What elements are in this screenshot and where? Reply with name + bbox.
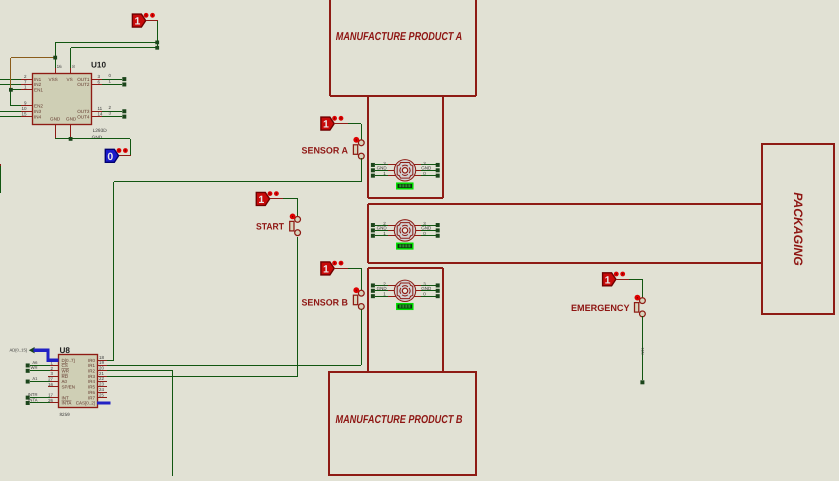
svg-text:VS: VS	[67, 77, 73, 82]
svg-text:WR: WR	[62, 369, 70, 374]
terminal INTR on U8	[26, 392, 50, 400]
svg-text:GND: GND	[421, 226, 432, 231]
wire EMERGENCY top	[642, 279, 644, 298]
IC U8 (8259A interrupt controller)	[48, 346, 107, 417]
logic state 1 feeding VSS/VS	[132, 13, 158, 28]
svg-text:IR4: IR4	[88, 379, 96, 384]
svg-text:INT: INT	[62, 395, 70, 400]
svg-text:0: 0	[107, 151, 113, 163]
wire OUT1 to terminal	[102, 73, 126, 81]
svg-text:24: 24	[99, 387, 104, 392]
clipped wire at left edge	[0, 164, 2, 193]
svg-text:11: 11	[98, 106, 103, 111]
svg-text:CAS[0..2]: CAS[0..2]	[76, 401, 95, 406]
svg-text:GND: GND	[377, 166, 388, 171]
svg-text:GND: GND	[50, 116, 61, 121]
svg-text:1: 1	[323, 119, 329, 131]
svg-text:MANUFACTURE PRODUCT B: MANUFACTURE PRODUCT B	[336, 414, 463, 426]
svg-text:EN1: EN1	[34, 88, 43, 93]
junction VSS	[155, 41, 159, 45]
svg-text:VSS: VSS	[49, 77, 58, 82]
svg-text:GND: GND	[377, 226, 388, 231]
bus CAS[0..2] out of U8	[97, 401, 110, 404]
logic state 1 for SENSOR B	[321, 261, 361, 276]
svg-text:U8: U8	[60, 346, 71, 355]
logic state 1 for SENSOR A	[321, 116, 361, 131]
wire OUT2 to terminal	[102, 78, 126, 86]
svg-text:16: 16	[48, 382, 53, 387]
svg-text:INTA: INTA	[62, 401, 72, 406]
wire SENSOR A top	[361, 124, 363, 140]
wire VSS net	[55, 21, 158, 68]
logic state 1 for START	[256, 191, 298, 206]
svg-text:IN4: IN4	[34, 114, 42, 119]
svg-text:IN2: IN2	[34, 82, 42, 87]
svg-text:IN1: IN1	[34, 77, 42, 82]
svg-text:IR7: IR7	[88, 395, 96, 400]
wire IN4 input	[0, 116, 21, 118]
motor M3 (stepper, conveyor 3)	[371, 280, 440, 309]
bus AD[0..15] into U8 D[0..7]	[10, 347, 59, 360]
motor M2 (stepper, conveyor 2)	[371, 220, 440, 249]
svg-text:OUT3: OUT3	[77, 109, 90, 114]
brown wire to EN1/EN2	[11, 58, 56, 107]
junction brown/VSS	[53, 56, 57, 60]
svg-text:SENSOR B: SENSOR B	[302, 297, 349, 307]
svg-text:L293D: L293D	[93, 128, 108, 134]
conveyor box 2 (middle lane to packaging)	[368, 204, 762, 263]
switch SENSOR A	[353, 137, 364, 159]
switch EMERGENCY	[635, 295, 646, 317]
svg-text:OUT4: OUT4	[77, 114, 90, 119]
svg-text:16: 16	[57, 64, 63, 69]
wire OUT3 to terminal	[102, 105, 126, 113]
wire IR1 to SENSOR B chain	[107, 365, 361, 367]
label START	[256, 221, 284, 231]
logic state 0 on GND	[105, 148, 128, 163]
svg-text:GND: GND	[377, 286, 388, 291]
svg-text:INTA: INTA	[28, 397, 37, 402]
svg-text:EN2: EN2	[34, 104, 43, 109]
wire IR0 to SENSOR A chain	[107, 182, 361, 361]
svg-text:21: 21	[99, 371, 104, 376]
wire START top	[297, 199, 299, 217]
svg-text:20: 20	[99, 366, 104, 371]
net label on emergency wire	[641, 348, 645, 355]
svg-text:14: 14	[98, 111, 104, 116]
svg-text:IR5: IR5	[88, 385, 96, 390]
svg-text:A1: A1	[32, 376, 38, 381]
svg-text:GND: GND	[66, 116, 77, 121]
wire SENSOR A bottom	[361, 158, 363, 182]
junction VS	[155, 46, 159, 50]
svg-text:OUT2: OUT2	[77, 82, 90, 87]
switch START	[290, 214, 301, 236]
svg-text:GND: GND	[421, 166, 432, 171]
label EMERGENCY	[571, 303, 630, 313]
svg-text:START: START	[256, 221, 284, 231]
label SENSOR B	[302, 297, 349, 307]
svg-text:1: 1	[605, 274, 611, 286]
svg-text:22: 22	[99, 376, 104, 381]
svg-text:IR6: IR6	[88, 390, 96, 395]
svg-text:IR0: IR0	[88, 358, 96, 363]
wire IN2 input	[0, 84, 21, 86]
svg-text:AD[0..15]: AD[0..15]	[10, 348, 27, 353]
conveyor box 1	[368, 96, 443, 198]
svg-text:D[0..7]: D[0..7]	[62, 358, 75, 363]
switch SENSOR B	[353, 287, 364, 309]
wire IN1 input	[0, 79, 21, 81]
terminal INTA on U8	[26, 397, 50, 405]
wire OUT4 to terminal	[102, 110, 126, 118]
terminal A1 on U8	[26, 376, 50, 384]
box PACKAGING	[762, 144, 834, 314]
wire GND net	[55, 139, 131, 157]
terminal at emergency wire end	[640, 380, 644, 384]
svg-text:EMERGENCY: EMERGENCY	[571, 303, 630, 313]
svg-text:U10: U10	[91, 61, 106, 70]
svg-text:18: 18	[99, 355, 104, 360]
wire SENSOR B top	[361, 268, 363, 291]
svg-text:PACKAGING: PACKAGING	[791, 192, 805, 266]
terminal A6 on U8	[26, 360, 50, 368]
svg-text:SP/EN: SP/EN	[62, 385, 76, 390]
svg-text:INTR: INTR	[28, 392, 38, 397]
svg-text:N91: N91	[641, 348, 645, 355]
svg-text:A0: A0	[62, 379, 68, 384]
svg-text:19: 19	[99, 360, 104, 365]
svg-text:10: 10	[21, 106, 27, 111]
svg-text:A6: A6	[32, 360, 38, 365]
junction GND	[69, 137, 73, 141]
label SENSOR A	[302, 145, 349, 155]
wire SENSOR B bottom	[361, 309, 363, 365]
logic state 1 for EMERGENCY	[603, 272, 642, 287]
svg-text:17: 17	[48, 393, 53, 398]
box MANUFACTURE PRODUCT A	[330, 0, 476, 96]
conveyor lane 3	[368, 268, 443, 372]
svg-text:CS: CS	[62, 363, 68, 368]
svg-text:IR3: IR3	[88, 374, 96, 379]
svg-text:27: 27	[48, 377, 53, 382]
motor M1 (stepper, conveyor 1)	[371, 160, 440, 189]
svg-text:IR2: IR2	[88, 369, 96, 374]
svg-text:RD: RD	[62, 374, 69, 379]
svg-text:GND: GND	[421, 286, 432, 291]
svg-text:23: 23	[99, 382, 104, 387]
svg-text:25: 25	[99, 392, 104, 397]
svg-text:1: 1	[323, 264, 329, 276]
junction EN1	[9, 88, 13, 92]
box MANUFACTURE PRODUCT B	[329, 372, 476, 475]
svg-text:SENSOR A: SENSOR A	[302, 145, 349, 155]
wire IN3 input	[0, 111, 21, 113]
op-amp driver IC U10 (L293D motor driver)	[21, 61, 107, 142]
svg-text:1: 1	[134, 16, 140, 28]
terminal WR on U8	[26, 365, 50, 373]
svg-text:15: 15	[21, 111, 27, 116]
wire IR2 going off bottom	[107, 371, 173, 477]
svg-text:MANUFACTURE PRODUCT A: MANUFACTURE PRODUCT A	[336, 31, 463, 43]
svg-text:1: 1	[258, 194, 264, 206]
svg-text:8259: 8259	[60, 412, 71, 417]
svg-text:WR: WR	[31, 365, 38, 370]
wire IR3 to START chain	[107, 237, 298, 377]
svg-text:IN3: IN3	[34, 109, 42, 114]
svg-text:IR1: IR1	[88, 363, 96, 368]
svg-text:OUT1: OUT1	[77, 77, 90, 82]
wire EMERGENCY bottom	[642, 316, 644, 380]
